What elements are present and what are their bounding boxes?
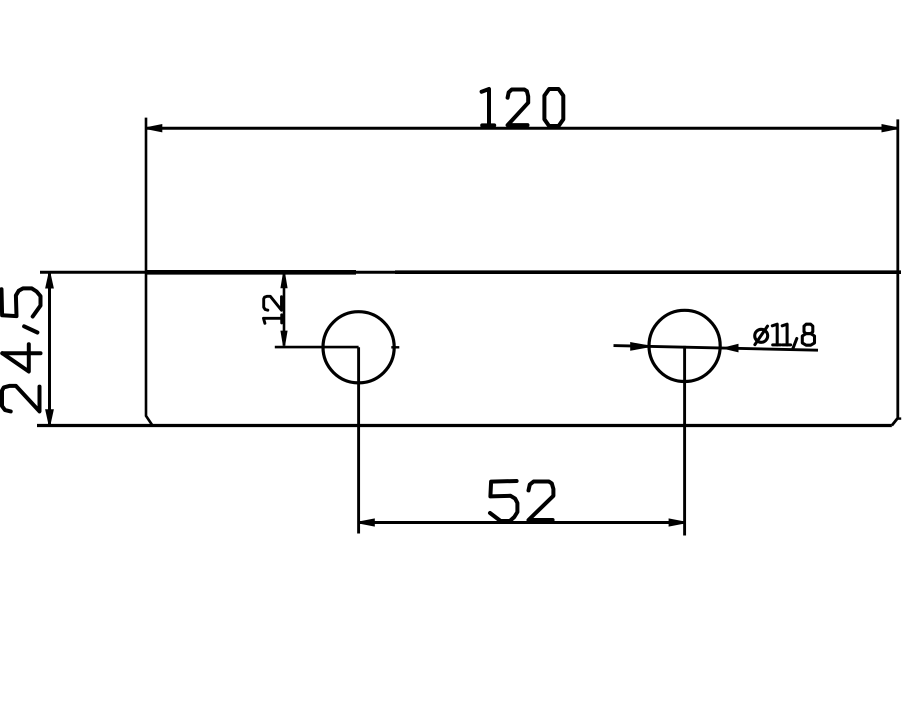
leader line from 12 dimension to left hole center	[275, 346, 359, 349]
plate left edge with 120 extension and bottom chamfer	[146, 118, 152, 426]
dimension line "120"	[146, 127, 898, 130]
arrowhead 120 right	[882, 124, 898, 132]
arrowhead ø11,8 right	[726, 344, 739, 353]
arrowhead ø11,8 left	[630, 342, 648, 351]
plate right edge with 120 extension and bottom chamfer	[892, 119, 898, 425]
arrowhead 52 left	[359, 518, 375, 526]
dimension line "12"	[283, 272, 286, 346]
dimension line "52"	[359, 521, 685, 524]
dimension text "120"	[482, 89, 564, 126]
hole circle left	[323, 312, 394, 383]
plate top edge semi-thick segment	[395, 270, 901, 274]
dimension text "24,5" rotated	[2, 288, 41, 411]
arrowhead 12 top	[280, 273, 287, 288]
plate bottom edge (also extension line for 24,5)	[37, 424, 892, 427]
plate top edge thick segment	[146, 270, 356, 275]
extension line 52 right (from right hole center)	[683, 346, 686, 536]
dimension text "52"	[490, 481, 553, 521]
chamfer stub bottom right	[898, 417, 901, 419]
dimension text "12" rotated	[264, 296, 282, 323]
center tick on left hole right quadrant	[391, 346, 399, 348]
dimension text "ø11,8"	[755, 324, 815, 348]
extension line 52 left (from left hole center)	[357, 347, 360, 533]
dimension line "ø11,8" through right hole	[614, 346, 819, 351]
plate top edge (also extension line for 24,5 and 120)	[40, 271, 901, 274]
arrowhead 24,5 top	[45, 274, 54, 289]
hole circle right	[649, 310, 720, 381]
arrowhead 24,5 bottom	[45, 409, 54, 424]
arrowhead 12 bottom	[280, 331, 287, 346]
dimension line "24,5"	[48, 273, 51, 426]
arrowhead 52 right	[669, 518, 685, 526]
arrowhead 120 left	[147, 124, 163, 132]
